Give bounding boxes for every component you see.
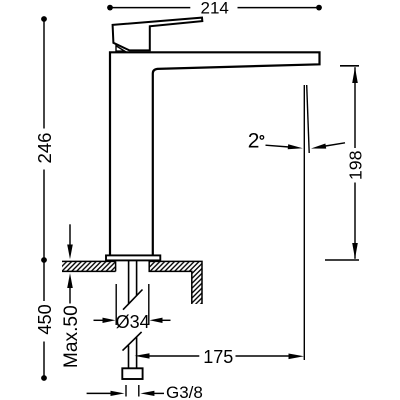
dot middle (deck level) [41, 257, 47, 263]
dot bottom of 450 [41, 375, 47, 381]
2deg right arrow tail [326, 143, 346, 146]
svg-text:Ø34: Ø34 [116, 312, 150, 332]
shank left line [128, 260, 130, 304]
degree circle [260, 136, 264, 140]
Max.50 top arrow tail [69, 224, 71, 245]
water stream right line (2 deg) [307, 85, 310, 153]
dimension 450 line lower segment [43, 342, 45, 379]
G3/8 right arrow tail [154, 392, 164, 394]
deck right band edges [149, 261, 202, 304]
198 bottom arrowhead [352, 243, 358, 259]
198 bottom tick [325, 259, 359, 261]
Max.50 bottom arrowhead [67, 273, 73, 288]
Ø34 extension line left [115, 284, 117, 325]
175 dim line left segment [147, 355, 199, 357]
175 right arrowhead [289, 354, 305, 360]
dot top of 246 [41, 16, 47, 22]
deck left band top edge [62, 260, 116, 262]
2deg left arrow tail [266, 145, 290, 147]
deck right hatched L-section [149, 261, 202, 304]
198 dim line upper segment [354, 67, 356, 148]
G3/8 extension line left [125, 385, 127, 397]
dimension 214 line right segment [238, 7, 320, 9]
dimension 214 line left segment [110, 7, 190, 9]
shank break slash [123, 290, 143, 310]
handle lever outline [113, 18, 203, 51]
dimension 450 line upper segment [43, 262, 45, 301]
base flange [106, 255, 160, 260]
deck left band bottom edge [62, 270, 116, 272]
svg-text:G3/8: G3/8 [166, 383, 203, 400]
G3/8 extension line right [138, 385, 140, 397]
faucet body and spout outline [110, 52, 320, 255]
Ø34 right arrow tail [161, 319, 171, 321]
Max.50 bottom arrow tail [69, 287, 71, 304]
175 left arrowhead [135, 353, 150, 358]
water stream left line [303, 85, 305, 360]
198 top arrowhead [352, 67, 358, 83]
Ø34 left arrow tail [94, 319, 105, 321]
hose left line [128, 346, 130, 369]
svg-text:214: 214 [201, 0, 229, 18]
dot right end of 214 [316, 5, 322, 11]
svg-text:Max.50: Max.50 [61, 305, 82, 368]
svg-text:450: 450 [35, 304, 55, 334]
svg-text:198: 198 [346, 150, 366, 180]
hose right line [136, 337, 138, 368]
Ø34 left arrowhead [103, 318, 116, 323]
left dimension line x=44 lower segment (246) [43, 170, 45, 258]
G3/8 right arrowhead [140, 391, 154, 396]
dot left end of 214 [107, 5, 113, 11]
G3/8 left arrow tail [87, 392, 112, 394]
deck left band hole edge [115, 261, 117, 271]
handle base front wedge [116, 46, 125, 51]
svg-text:246: 246 [34, 132, 55, 163]
hose break slash [123, 332, 142, 351]
175 dim line right segment [236, 355, 293, 357]
2deg right arrowhead [311, 144, 326, 149]
Max.50 top arrowhead [67, 245, 73, 260]
svg-text:175: 175 [203, 347, 233, 367]
hose end nut [122, 368, 142, 379]
shank right line [136, 260, 138, 295]
left dimension line x=44 upper segment (246) [43, 19, 45, 129]
Ø34 extension line right [148, 284, 150, 325]
198 dim line lower segment [354, 183, 356, 259]
G3/8 left arrowhead [111, 391, 125, 396]
deck left hatched band [62, 261, 116, 271]
198 top tick [340, 65, 359, 67]
svg-text:2: 2 [248, 130, 260, 153]
Ø34 right arrowhead [150, 318, 163, 323]
2deg left arrowhead [288, 144, 303, 149]
